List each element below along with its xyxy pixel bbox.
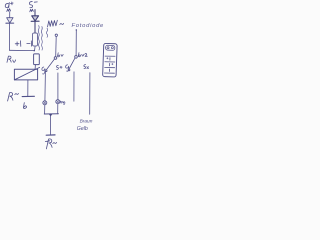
svg-text:Fotodiode: Fotodiode	[72, 23, 105, 29]
svg-text:Braun: Braun	[80, 119, 93, 125]
svg-text:Gelb: Gelb	[77, 126, 88, 132]
